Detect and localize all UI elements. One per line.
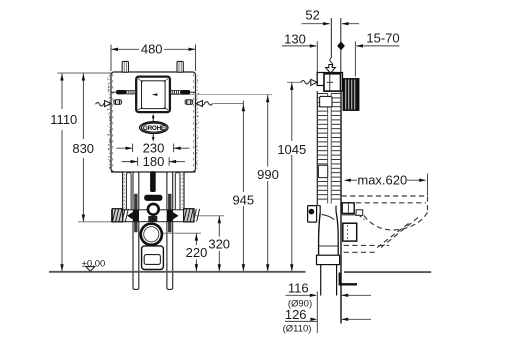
svg-text:1045: 1045 <box>277 142 306 157</box>
lower bracket <box>142 246 164 270</box>
wall face line <box>340 91 342 324</box>
wc pan dashed outline <box>342 195 428 197</box>
GROHE logo <box>140 122 168 134</box>
cistern head block <box>317 73 342 92</box>
anchor nut left <box>114 100 122 105</box>
wall bracket hatched <box>343 79 359 111</box>
svg-text:52: 52 <box>305 7 319 22</box>
dimension 1110 overall height <box>61 73 63 109</box>
wc bracket upper <box>342 203 354 214</box>
frame edge texture <box>108 75 110 170</box>
wall anchor arrow side <box>301 81 312 85</box>
svg-text:945: 945 <box>232 192 254 207</box>
svg-text:1110: 1110 <box>50 112 77 127</box>
extension line frame top <box>58 72 112 74</box>
mounting peg right <box>177 61 183 72</box>
flush pipe <box>151 172 156 192</box>
service opening upper <box>320 96 332 107</box>
box centre arrow <box>152 93 158 96</box>
dimension 15-70 wall finish <box>356 45 399 47</box>
floor recess outline <box>340 273 357 285</box>
extension line drain centre <box>163 232 201 234</box>
floor line side view <box>344 271 431 273</box>
svg-text:480: 480 <box>141 42 163 57</box>
drain elbow and pipe <box>319 206 321 213</box>
svg-text:220: 220 <box>186 245 208 260</box>
service opening lower <box>318 165 327 177</box>
dimension 1045 <box>287 81 302 83</box>
frame lower housing <box>111 171 123 173</box>
flow arrow <box>326 65 336 74</box>
anchor nut right <box>185 100 193 105</box>
svg-text:max.620: max.620 <box>357 173 407 188</box>
inspection box <box>136 77 170 113</box>
floor line front view <box>49 271 306 273</box>
rail guide tube left <box>126 173 131 222</box>
support rail right <box>167 172 173 289</box>
extension line pipe left <box>316 292 318 334</box>
dimension 230 rail spacing <box>132 144 134 153</box>
foot block <box>308 206 317 223</box>
dimension max.620 <box>346 179 357 181</box>
extension line support rail left <box>78 221 112 223</box>
hatched block right <box>184 209 194 222</box>
supply pipe <box>330 18 332 58</box>
svg-text:990: 990 <box>257 167 279 182</box>
connector ring <box>148 204 159 215</box>
svg-text:130: 130 <box>284 32 306 47</box>
support rail left <box>133 172 139 289</box>
drain opening circle <box>141 224 162 245</box>
anchor bolt left <box>111 91 117 93</box>
centre arrow below logo <box>152 134 154 139</box>
mounting peg left <box>122 61 128 72</box>
frame body upper section <box>111 72 196 172</box>
dimension 52 <box>302 23 330 25</box>
frame column side view <box>316 91 318 206</box>
wall reference diamond <box>337 41 345 50</box>
inlet valve <box>145 195 162 200</box>
centre arrow above logo <box>152 116 154 123</box>
wall anchor arrow left <box>96 102 107 106</box>
hatched block left <box>112 209 122 222</box>
svg-text:320: 320 <box>208 237 230 252</box>
centre line to 990 extension <box>153 94 273 96</box>
dimension 990 <box>267 95 269 167</box>
svg-text:116: 116 <box>288 281 309 296</box>
wall anchor arrow right <box>201 102 212 106</box>
dimension 945 <box>214 103 244 105</box>
svg-text:GROHE: GROHE <box>143 125 166 132</box>
extension line support rail right <box>194 215 224 217</box>
dimension 130 <box>282 45 317 47</box>
anchor bolt right <box>190 91 196 93</box>
svg-text:830: 830 <box>72 141 94 156</box>
cross bar <box>112 210 193 222</box>
svg-text:(Ø110): (Ø110) <box>283 323 312 334</box>
svg-text:126: 126 <box>285 307 307 322</box>
dimension 220 <box>195 233 197 245</box>
dimension 830 top to support rail <box>82 73 84 139</box>
centre line stub <box>152 215 154 223</box>
rail guide tube right <box>175 173 180 222</box>
dimension 480 frame width <box>110 45 112 72</box>
wc bracket lower <box>343 223 357 241</box>
dimension 320 <box>218 216 220 237</box>
dimension 180 rail inner spacing <box>137 157 139 166</box>
svg-text:15-70: 15-70 <box>366 30 399 45</box>
svg-text:180: 180 <box>143 154 165 169</box>
